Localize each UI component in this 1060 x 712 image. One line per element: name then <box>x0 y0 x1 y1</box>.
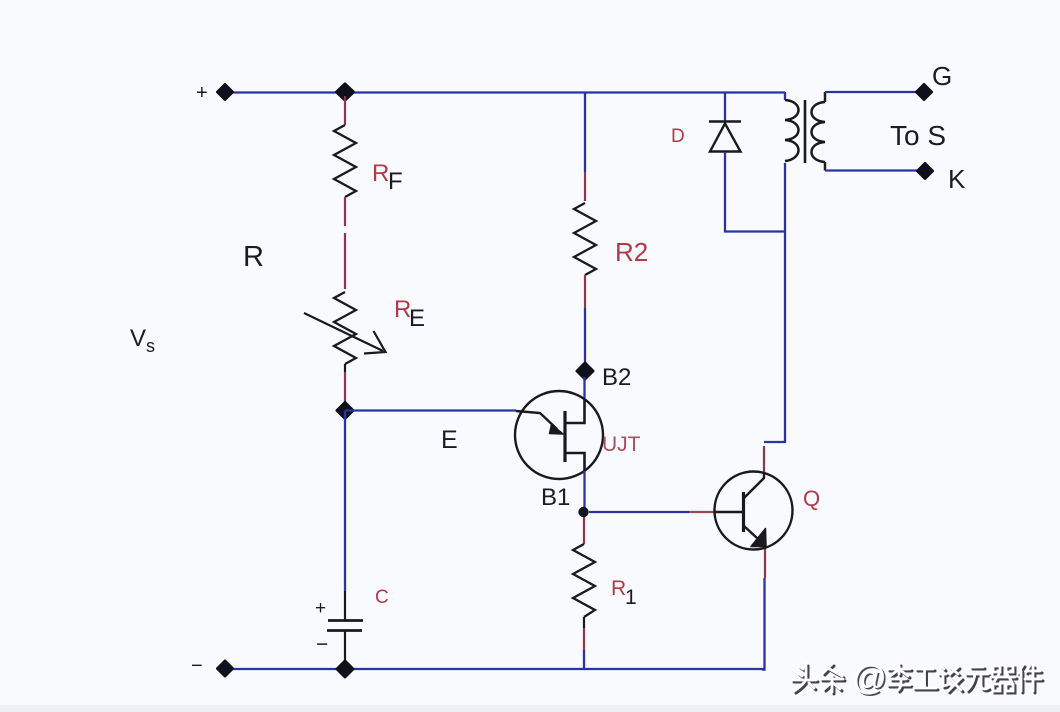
svg-text:R: R <box>611 577 626 600</box>
wire B2 to UJT <box>583 377 585 399</box>
resistor R1 <box>573 544 595 617</box>
svg-text:V: V <box>130 325 146 352</box>
capacitor C <box>327 621 363 667</box>
resistor RE (variable) <box>334 292 356 364</box>
Q emitter inner lead with arrow <box>744 526 766 549</box>
resistor R2 <box>574 203 596 275</box>
wire R2 branch top <box>584 92 586 201</box>
node + terminal (positive supply) <box>196 82 233 104</box>
wire Q emitter down to rail <box>762 549 765 670</box>
svg-text:R: R <box>243 241 264 273</box>
svg-text:@: @ <box>852 659 887 697</box>
svg-text:UJT: UJT <box>602 433 641 456</box>
diode D top lead <box>724 92 726 121</box>
wire R2 bottom lead <box>584 275 586 366</box>
node E junction <box>337 403 353 419</box>
node B1 <box>578 507 588 517</box>
wire bottom rail <box>229 668 764 670</box>
UJT B1 inner lead <box>565 453 585 471</box>
svg-text:K: K <box>948 164 966 194</box>
Q base bar <box>742 492 745 532</box>
Q collector inner lead <box>744 472 764 498</box>
node - terminal <box>191 655 233 677</box>
svg-text:R: R <box>372 160 389 187</box>
svg-text:D: D <box>671 126 685 147</box>
diode D cathode bar <box>709 120 741 123</box>
svg-text:s: s <box>146 336 155 356</box>
arrow of RE <box>304 313 386 354</box>
resistor RF <box>334 125 356 197</box>
wire Q collector lead <box>763 446 765 473</box>
wire transformer primary down to Q <box>764 163 785 442</box>
UJT B2 inner lead <box>565 399 585 423</box>
node junction at RF top <box>337 84 354 100</box>
wire B1 to R1 <box>583 517 585 544</box>
Q base inner lead <box>715 511 743 514</box>
svg-text:C: C <box>375 587 389 608</box>
svg-text:E: E <box>441 426 458 454</box>
UJT emitter lead with arrow <box>516 411 563 434</box>
svg-text:−: − <box>316 633 328 656</box>
node B2 <box>577 363 593 379</box>
transformer secondary winding <box>812 92 826 171</box>
svg-text:R2: R2 <box>615 237 648 267</box>
wire secondary to K terminal <box>825 169 921 171</box>
node K terminal <box>918 164 933 179</box>
label RE <box>394 296 425 332</box>
svg-text:1: 1 <box>625 586 637 609</box>
label Vs <box>130 325 155 356</box>
label R1 <box>611 577 637 609</box>
svg-text:E: E <box>409 305 425 332</box>
UJT base bar <box>563 411 566 462</box>
wire diode bottom lead <box>725 152 785 232</box>
wire R1 bottom lead <box>583 617 585 668</box>
svg-text:B1: B1 <box>541 484 570 511</box>
label RF <box>372 160 403 195</box>
svg-text:+: + <box>315 598 326 619</box>
wire B1 to Q base <box>589 511 715 513</box>
op-amp UJT body circle <box>515 391 603 479</box>
svg-text:−: − <box>191 655 203 677</box>
diode D triangle <box>710 124 741 152</box>
wire RF top lead <box>344 96 346 125</box>
wire top rail <box>229 91 785 93</box>
node G terminal <box>917 85 932 100</box>
wire E horizontal to UJT <box>345 409 516 411</box>
transformer primary winding <box>785 92 799 161</box>
wire secondary to G terminal <box>825 91 920 93</box>
node capacitor bottom junction <box>337 661 353 677</box>
svg-text:+: + <box>196 82 208 104</box>
wire RF-RE lead <box>344 197 346 289</box>
svg-text:To S: To S <box>890 120 946 151</box>
transformer core <box>804 100 807 163</box>
svg-text:Q: Q <box>803 486 820 511</box>
transistor Q body circle <box>715 472 793 550</box>
wire UJT B1 down <box>583 471 585 508</box>
svg-text:F: F <box>388 168 403 195</box>
svg-text:B2: B2 <box>602 364 631 391</box>
wire E junction down to capacitor <box>344 411 346 621</box>
wire RE bottom lead <box>344 364 346 404</box>
svg-text:G: G <box>932 61 952 91</box>
bottom edge strip <box>0 705 1060 712</box>
